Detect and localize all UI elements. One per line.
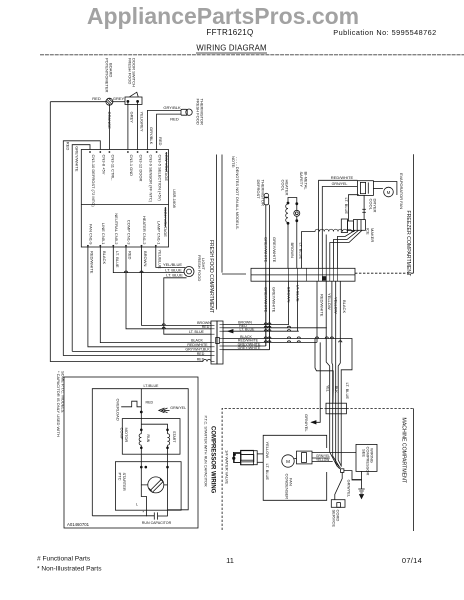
defrost thermistor symbol xyxy=(264,193,269,205)
wire GREY/WHITE below bar left xyxy=(265,281,267,346)
see compressor wiring text xyxy=(361,447,374,476)
wire GREY pot to door switch xyxy=(113,101,125,103)
ptc terminal S xyxy=(167,466,169,468)
wire LT.BLUE below bar xyxy=(296,281,298,331)
wire RED/WHITE evaporator fan xyxy=(319,180,358,268)
svg-text:BROWN: BROWN xyxy=(143,251,148,266)
condenser fan motor M2 xyxy=(282,455,294,467)
wire RED/WHITE fan pin down xyxy=(88,247,211,347)
wire into run winding xyxy=(140,412,142,434)
wire GREY/WHITE defrost thermistor right xyxy=(268,205,270,350)
chassis ground compressor xyxy=(159,408,170,413)
board divider line xyxy=(81,204,168,206)
wire RED comp pin down xyxy=(126,247,211,329)
plug wire YELLOW xyxy=(257,453,263,455)
safety bi-metal symbol xyxy=(294,203,300,222)
svg-text:FFTR1621Q: FFTR1621Q xyxy=(206,28,253,37)
wire GREY/WHITE below bar right xyxy=(268,281,270,350)
svg-text:GRY/WHT,BLK: GRY/WHT,BLK xyxy=(185,347,210,351)
svg-text:CN3-8 +5V: CN3-8 +5V xyxy=(101,155,106,175)
wire RED from potentiometer to left bus xyxy=(50,101,106,103)
wire ORANGE from potentiometer down to board xyxy=(108,105,110,149)
condenser fan housing xyxy=(297,451,313,464)
wire compressor box down xyxy=(352,471,362,479)
fresh food thermistor label xyxy=(195,99,204,125)
wire jog to machine connector xyxy=(315,339,333,404)
svg-text:BLACK: BLACK xyxy=(102,251,107,264)
svg-text:L: L xyxy=(136,503,138,507)
door switch label xyxy=(128,58,137,87)
board bottom pin dots xyxy=(87,245,157,247)
wire ptc right down xyxy=(167,467,169,516)
service cord plug xyxy=(331,500,345,508)
loom wire down to bus xyxy=(300,232,302,269)
freezer compartment boundary xyxy=(412,154,414,273)
run capacitor plates xyxy=(154,512,167,519)
wire YELLOW below bar 1 xyxy=(326,281,330,403)
evaporator fan motor M1 xyxy=(384,187,394,197)
wire top to overload junction xyxy=(140,389,142,412)
svg-text:1/4 WATER VALVE: 1/4 WATER VALVE xyxy=(225,450,230,484)
svg-text:LT. BLUE: LT. BLUE xyxy=(345,383,350,400)
wire LT./BLUE loop top xyxy=(92,389,188,516)
svg-text:MACHINE COMPARTMENT: MACHINE COMPARTMENT xyxy=(401,418,407,484)
harness connector P1 right half xyxy=(217,321,223,364)
wire YELLOW below bar 2 xyxy=(331,281,334,403)
crossover bumps at grey/white verticals xyxy=(264,323,271,342)
see compressor wiring box xyxy=(356,444,377,471)
machine compartment boundary right xyxy=(346,407,413,409)
start winding terminal bottom xyxy=(167,447,169,449)
svg-text:NEUTRAL CN5-2: NEUTRAL CN5-2 xyxy=(114,213,119,245)
svg-text:DOOR SWITCH: DOOR SWITCH xyxy=(132,58,137,87)
svg-text:YELLOW: YELLOW xyxy=(327,293,332,310)
svg-text:YEL/BLUE: YEL/BLUE xyxy=(157,250,162,269)
svg-text:THERMISTOR: THERMISTOR xyxy=(200,99,205,125)
wire ice maker to bus 2 xyxy=(334,230,359,268)
fresh food light label xyxy=(197,255,206,281)
arrow on LT.BLUE wire xyxy=(228,330,233,333)
svg-text:AppliancePartsPros.com: AppliancePartsPros.com xyxy=(87,3,359,29)
svg-text:BLACK: BLACK xyxy=(342,300,347,313)
compressor motor box xyxy=(122,419,180,455)
condenser fan label xyxy=(284,474,293,500)
wire RED left into connector xyxy=(63,355,211,357)
fresh food thermistor symbol xyxy=(181,109,192,115)
svg-text:* Non-Illustrated Parts: * Non-Illustrated Parts xyxy=(37,566,102,573)
wire left outer vertical xyxy=(50,102,203,362)
svg-text:LAMP CN1-1: LAMP CN1-1 xyxy=(156,221,161,245)
svg-text:- - - - DENOTES NOT ON ALL MO: - - - - DENOTES NOT ON ALL MODELS. xyxy=(235,157,240,230)
evaporator fan bracket xyxy=(373,182,397,196)
svg-text:A01460701: A01460701 xyxy=(67,522,90,527)
wire GRY/BLK thermistor upper xyxy=(148,110,182,149)
svg-text:07/14: 07/14 xyxy=(402,556,422,565)
evaporator fan connector xyxy=(357,181,373,196)
ice maker receptacle xyxy=(353,220,365,231)
svg-text:GREY/WHITE: GREY/WHITE xyxy=(264,237,269,263)
svg-text:# Functional Parts: # Functional Parts xyxy=(37,556,91,563)
ice maker plug body xyxy=(341,219,353,233)
svg-text:GREY/WHITE: GREY/WHITE xyxy=(238,346,261,350)
wire harness loom xyxy=(301,229,354,231)
svg-text:COMP: COMP xyxy=(120,428,125,440)
svg-text:RED/WHITE: RED/WHITE xyxy=(331,175,354,180)
svg-text:RUN: RUN xyxy=(146,435,150,443)
wire connector to fan motor xyxy=(373,188,383,190)
svg-text:CN3-12 DOOR: CN3-12 DOOR xyxy=(139,155,144,182)
svg-text:GREY/WHITE: GREY/WHITE xyxy=(74,146,79,172)
svg-text:CN3-1 GND: CN3-1 GND xyxy=(129,155,134,177)
wire bottom left to capacitor xyxy=(92,515,154,517)
wire ptc left xyxy=(141,467,148,485)
svg-text:FRESH FOOD COMPARTMENT: FRESH FOOD COMPARTMENT xyxy=(208,240,214,313)
note label xyxy=(231,156,240,230)
crossover bumps on RED wire xyxy=(162,327,165,329)
svg-text:GRN/YEL: GRN/YEL xyxy=(332,182,348,186)
footnote capacitor xyxy=(56,371,66,437)
svg-text:RUN CAPACITOR: RUN CAPACITOR xyxy=(142,521,172,525)
wire RED connector to freezer xyxy=(223,327,327,329)
connector latch notch xyxy=(216,338,220,344)
wire fan housing to compressor box xyxy=(312,452,356,454)
svg-text:GREY/WHITE: GREY/WHITE xyxy=(272,287,277,313)
wire BLACK below bar xyxy=(338,281,340,403)
svg-text:RED: RED xyxy=(170,117,179,122)
wire LT.BLUE light return xyxy=(164,278,211,334)
fresh food compartment boundary inner xyxy=(221,155,223,273)
wire ice maker to bus 1 xyxy=(337,230,355,268)
svg-text:GREY/WHITE: GREY/WHITE xyxy=(263,287,268,313)
bar midline xyxy=(251,274,355,276)
svg-text:GREY/WHITE: GREY/WHITE xyxy=(272,237,277,263)
wire GREY/WHITE lower connector to defrost thermistor xyxy=(223,349,269,351)
svg-text:HEATER CN1-2: HEATER CN1-2 xyxy=(142,216,147,245)
svg-text:GREY: GREY xyxy=(113,96,125,101)
cool heater coil xyxy=(286,202,289,224)
svg-text:EVAPORATOR FAN: EVAPORATOR FAN xyxy=(399,173,404,209)
ptc terminal M2 xyxy=(145,466,147,468)
wire ice maker to bus 3 xyxy=(330,230,362,268)
harness connector P1 left half xyxy=(211,321,217,364)
wire 4 below machine connector xyxy=(338,403,341,466)
fresh food light bulb xyxy=(184,267,194,277)
label HIGH VOLTAGE xyxy=(163,207,168,237)
dryer ticks on wire xyxy=(362,208,366,210)
svg-text:HEATER: HEATER xyxy=(285,180,290,196)
wire cool heater top to bi-metal xyxy=(288,198,297,211)
board top pin dots xyxy=(89,151,157,153)
machine inline connector xyxy=(326,403,346,414)
branch wire to start winding xyxy=(141,424,167,434)
svg-text:GRY/BLK: GRY/BLK xyxy=(149,127,154,145)
svg-text:M: M xyxy=(286,459,290,464)
wire to service cord xyxy=(335,472,342,499)
svg-text:CN3-11 CTRL.: CN3-11 CTRL. xyxy=(110,155,115,181)
crossover bumps on BROWN wire xyxy=(162,324,165,326)
svg-text:FAN CN1-9: FAN CN1-9 xyxy=(89,224,94,245)
svg-text:LT. BLUE: LT. BLUE xyxy=(265,464,270,481)
power plug body xyxy=(241,451,257,465)
service cord label xyxy=(332,510,341,528)
svg-text:GRN/YEL: GRN/YEL xyxy=(304,414,309,432)
bar wire ticks xyxy=(266,268,338,281)
overload protector xyxy=(121,401,141,407)
ground symbol service xyxy=(358,489,364,499)
bar key block xyxy=(322,276,327,280)
wall dashed line right xyxy=(355,272,413,274)
svg-text:YEL/BLUE: YEL/BLUE xyxy=(163,262,182,267)
svg-text:YELLOW: YELLOW xyxy=(265,442,270,459)
svg-text:* CAPACITOR IS ONLY USED WITH: * CAPACITOR IS ONLY USED WITH xyxy=(56,371,61,437)
ice maker label xyxy=(366,228,375,242)
machine connector midline xyxy=(326,407,346,409)
arrowhead on ground wire xyxy=(312,342,321,422)
wire YELLOW from loom to bus xyxy=(325,235,327,269)
wire LT.BLUE bi-metal down xyxy=(296,216,298,268)
wire fan connector down to ice maker plug xyxy=(363,195,365,219)
wire BLACK connector to machine xyxy=(223,339,352,404)
svg-text:RED: RED xyxy=(65,142,70,151)
svg-text:GRY/BLK: GRY/BLK xyxy=(163,105,181,110)
svg-text:THERMISTOR: THERMISTOR xyxy=(260,180,265,206)
wire GRN/YEL evaporator fan xyxy=(322,187,357,269)
svg-text:LT. BLUE: LT. BLUE xyxy=(296,285,301,302)
wire RED loop into board top xyxy=(63,141,100,356)
condenser loop wire xyxy=(263,435,327,500)
svg-text:COMPRESSOR WIRING: COMPRESSOR WIRING xyxy=(210,426,216,494)
wire run bottom down xyxy=(140,445,142,467)
wire LT.BLUE fan connector left pin down xyxy=(349,195,359,221)
connector pin stubs left xyxy=(211,325,215,361)
svg-text:WIRING DIAGRAM: WIRING DIAGRAM xyxy=(196,44,266,53)
svg-text:BLK: BLK xyxy=(334,386,338,393)
wire start bottom down xyxy=(167,445,169,467)
crossover bumps at right verticals xyxy=(287,326,342,342)
start winding terminal top xyxy=(167,429,169,431)
wire fan housing right 2 xyxy=(312,461,333,463)
wire left outer into connector xyxy=(210,361,212,363)
defrost thermistor label xyxy=(256,180,265,206)
svg-text:RED: RED xyxy=(128,251,133,260)
svg-text:LT. BLUE: LT. BLUE xyxy=(344,198,349,215)
svg-text:LINE CN5-1: LINE CN5-1 xyxy=(101,223,106,245)
svg-text:RED/WHITE: RED/WHITE xyxy=(319,294,324,317)
svg-text:11: 11 xyxy=(226,556,234,565)
fresh food compartment boundary outer xyxy=(216,155,218,310)
wire GRN/YEL to ground xyxy=(344,471,362,489)
cool dryer label xyxy=(368,199,377,213)
svg-text:BROWN: BROWN xyxy=(290,243,295,258)
svg-text:RED: RED xyxy=(158,137,163,146)
wire YEL/BLUE lamp pin to light xyxy=(156,247,185,267)
wire RED thermistor lower xyxy=(157,114,181,149)
svg-text:COMP CN1-3: COMP CN1-3 xyxy=(127,220,132,245)
svg-text:RED: RED xyxy=(202,325,210,329)
connector pin stubs right xyxy=(220,325,224,350)
ptc starter label xyxy=(118,473,127,491)
svg-text:CN3-9 SENSOR (FF NTC): CN3-9 SENSOR (FF NTC) xyxy=(149,155,154,203)
svg-text:P.T.C. STARTER WITH RUN CAPACI: P.T.C. STARTER WITH RUN CAPACITOR xyxy=(203,416,207,487)
svg-text:USR-1608: USR-1608 xyxy=(172,189,177,208)
svg-text:MOTOR: MOTOR xyxy=(124,428,129,443)
label LOW VOLTAGE xyxy=(164,152,169,181)
svg-text:STARTER: STARTER xyxy=(122,473,127,491)
crossover bump on left outer wire xyxy=(203,360,211,362)
wire 3 below machine connector xyxy=(336,403,341,468)
run winding terminal bottom xyxy=(140,447,142,449)
svg-text:RED: RED xyxy=(92,96,101,101)
crossover bumps on LT.BLUE light wire xyxy=(124,271,127,273)
svg-text:Publication No: 5995548762: Publication No: 5995548762 xyxy=(333,28,436,37)
svg-text:LT. BLUE: LT. BLUE xyxy=(298,243,303,260)
svg-text:BROWN: BROWN xyxy=(286,287,291,302)
wire GREY/WHITE left into connector xyxy=(72,350,211,352)
wire BROWN heater pin down xyxy=(142,247,212,325)
svg-text:ORANGE: ORANGE xyxy=(107,112,112,130)
potentiometer label xyxy=(104,58,113,93)
comp motor label xyxy=(120,428,129,443)
ptc terminal M xyxy=(140,466,142,468)
svg-text:LT. BLUE: LT. BLUE xyxy=(166,273,183,278)
svg-text:FAN: FAN xyxy=(289,478,294,486)
wire BROWN below bar xyxy=(287,281,289,324)
svg-text:GRN/YEL: GRN/YEL xyxy=(347,480,352,498)
svg-text:LT. BLUE: LT. BLUE xyxy=(189,330,205,334)
wire ptc right xyxy=(164,484,168,486)
underline of WIRING DIAGRAM xyxy=(196,52,267,54)
wire 5 below machine connector xyxy=(340,403,342,466)
wire LT.BLUE neutral pin to light xyxy=(113,247,184,273)
strain relief block xyxy=(341,469,344,473)
wire BROWN cool heater down xyxy=(287,223,289,268)
svg-text:LT. BLUE: LT. BLUE xyxy=(240,328,256,332)
fresh food door switch xyxy=(125,92,142,104)
water valve W1 xyxy=(233,450,253,465)
run winding coil xyxy=(139,434,141,445)
wire 2 below machine connector xyxy=(333,403,340,466)
wire fan housing right 1 xyxy=(312,457,330,459)
wire BLACK line pin down xyxy=(100,247,211,343)
ptc thermistor circle xyxy=(148,477,164,493)
svg-text:RED: RED xyxy=(197,352,205,356)
wire RED/WHITE below bar with jog xyxy=(316,281,318,342)
svg-text:LT. BLUE: LT. BLUE xyxy=(115,251,120,268)
svg-text:LT./BLUE: LT./BLUE xyxy=(144,384,160,388)
wire 1 below machine connector xyxy=(330,403,340,469)
wire GREY/WHITE loop into board top xyxy=(72,145,90,352)
svg-text:CN3-5 SELECTION (+5V): CN3-5 SELECTION (+5V) xyxy=(158,155,163,202)
wire GREY/WHITE defrost thermistor left xyxy=(265,205,267,346)
svg-text:FREEZER COMPARTMENT: FREEZER COMPARTMENT xyxy=(405,211,411,278)
svg-text:M: M xyxy=(387,190,391,195)
control board U1 xyxy=(81,150,168,248)
wire GREY door switch left terminal down xyxy=(127,101,129,149)
svg-text:RED/WHITE: RED/WHITE xyxy=(187,343,208,347)
svg-text:MAKER: MAKER xyxy=(370,228,375,242)
wall pass-through connector bar xyxy=(251,268,355,281)
svg-text:BOARD: BOARD xyxy=(108,63,113,77)
wire LT.BLUE connector to freezer xyxy=(223,330,299,332)
junction dot RED xyxy=(140,411,142,413)
svg-text:LIGHT: LIGHT xyxy=(201,258,206,270)
svg-text:RED: RED xyxy=(146,400,154,404)
svg-text:RED/WHITE: RED/WHITE xyxy=(89,251,94,274)
plug wire LT.BLUE xyxy=(257,461,263,463)
wire BROWN connector to freezer xyxy=(223,324,289,326)
wire motor to housing xyxy=(294,458,296,460)
cool heater label xyxy=(281,180,290,196)
svg-text:RED: RED xyxy=(197,357,205,361)
wire GREY/WHITE upper connector to defrost thermistor xyxy=(223,345,266,347)
safety bi-metal label xyxy=(299,172,308,191)
svg-text:CN3-10 DEFROST (72 MTG): CN3-10 DEFROST (72 MTG) xyxy=(91,155,96,208)
start winding coil xyxy=(168,434,170,445)
svg-text:GREY: GREY xyxy=(130,112,135,124)
svg-text:START: START xyxy=(172,431,176,443)
svg-text:YEL/GREY: YEL/GREY xyxy=(139,112,144,132)
wire below bar 3 xyxy=(335,281,337,403)
svg-text:GRN/YEL: GRN/YEL xyxy=(170,406,186,410)
compressor wiring outer box xyxy=(64,377,198,528)
potentiometer symbol xyxy=(106,98,113,105)
wire YEL/GREY door switch right terminal down xyxy=(137,101,139,149)
header separator dashed line xyxy=(40,54,464,56)
run winding terminal top xyxy=(140,429,142,431)
svg-text:DRYER: DRYER xyxy=(373,199,378,213)
svg-text:WIRING: WIRING xyxy=(370,448,375,463)
svg-text:OVERLOAD: OVERLOAD xyxy=(116,399,121,421)
power plug terminal block xyxy=(233,454,241,463)
wire ptc left down xyxy=(141,485,146,516)
machine compartment boundary left xyxy=(222,408,326,530)
svg-text:CORD: CORD xyxy=(336,510,341,522)
ptc starter box xyxy=(115,462,181,511)
svg-text:BI-METAL: BI-METAL xyxy=(303,172,308,191)
wire RED/WHITE connector to freezer xyxy=(223,341,317,343)
svg-text:YEL: YEL xyxy=(326,385,330,392)
